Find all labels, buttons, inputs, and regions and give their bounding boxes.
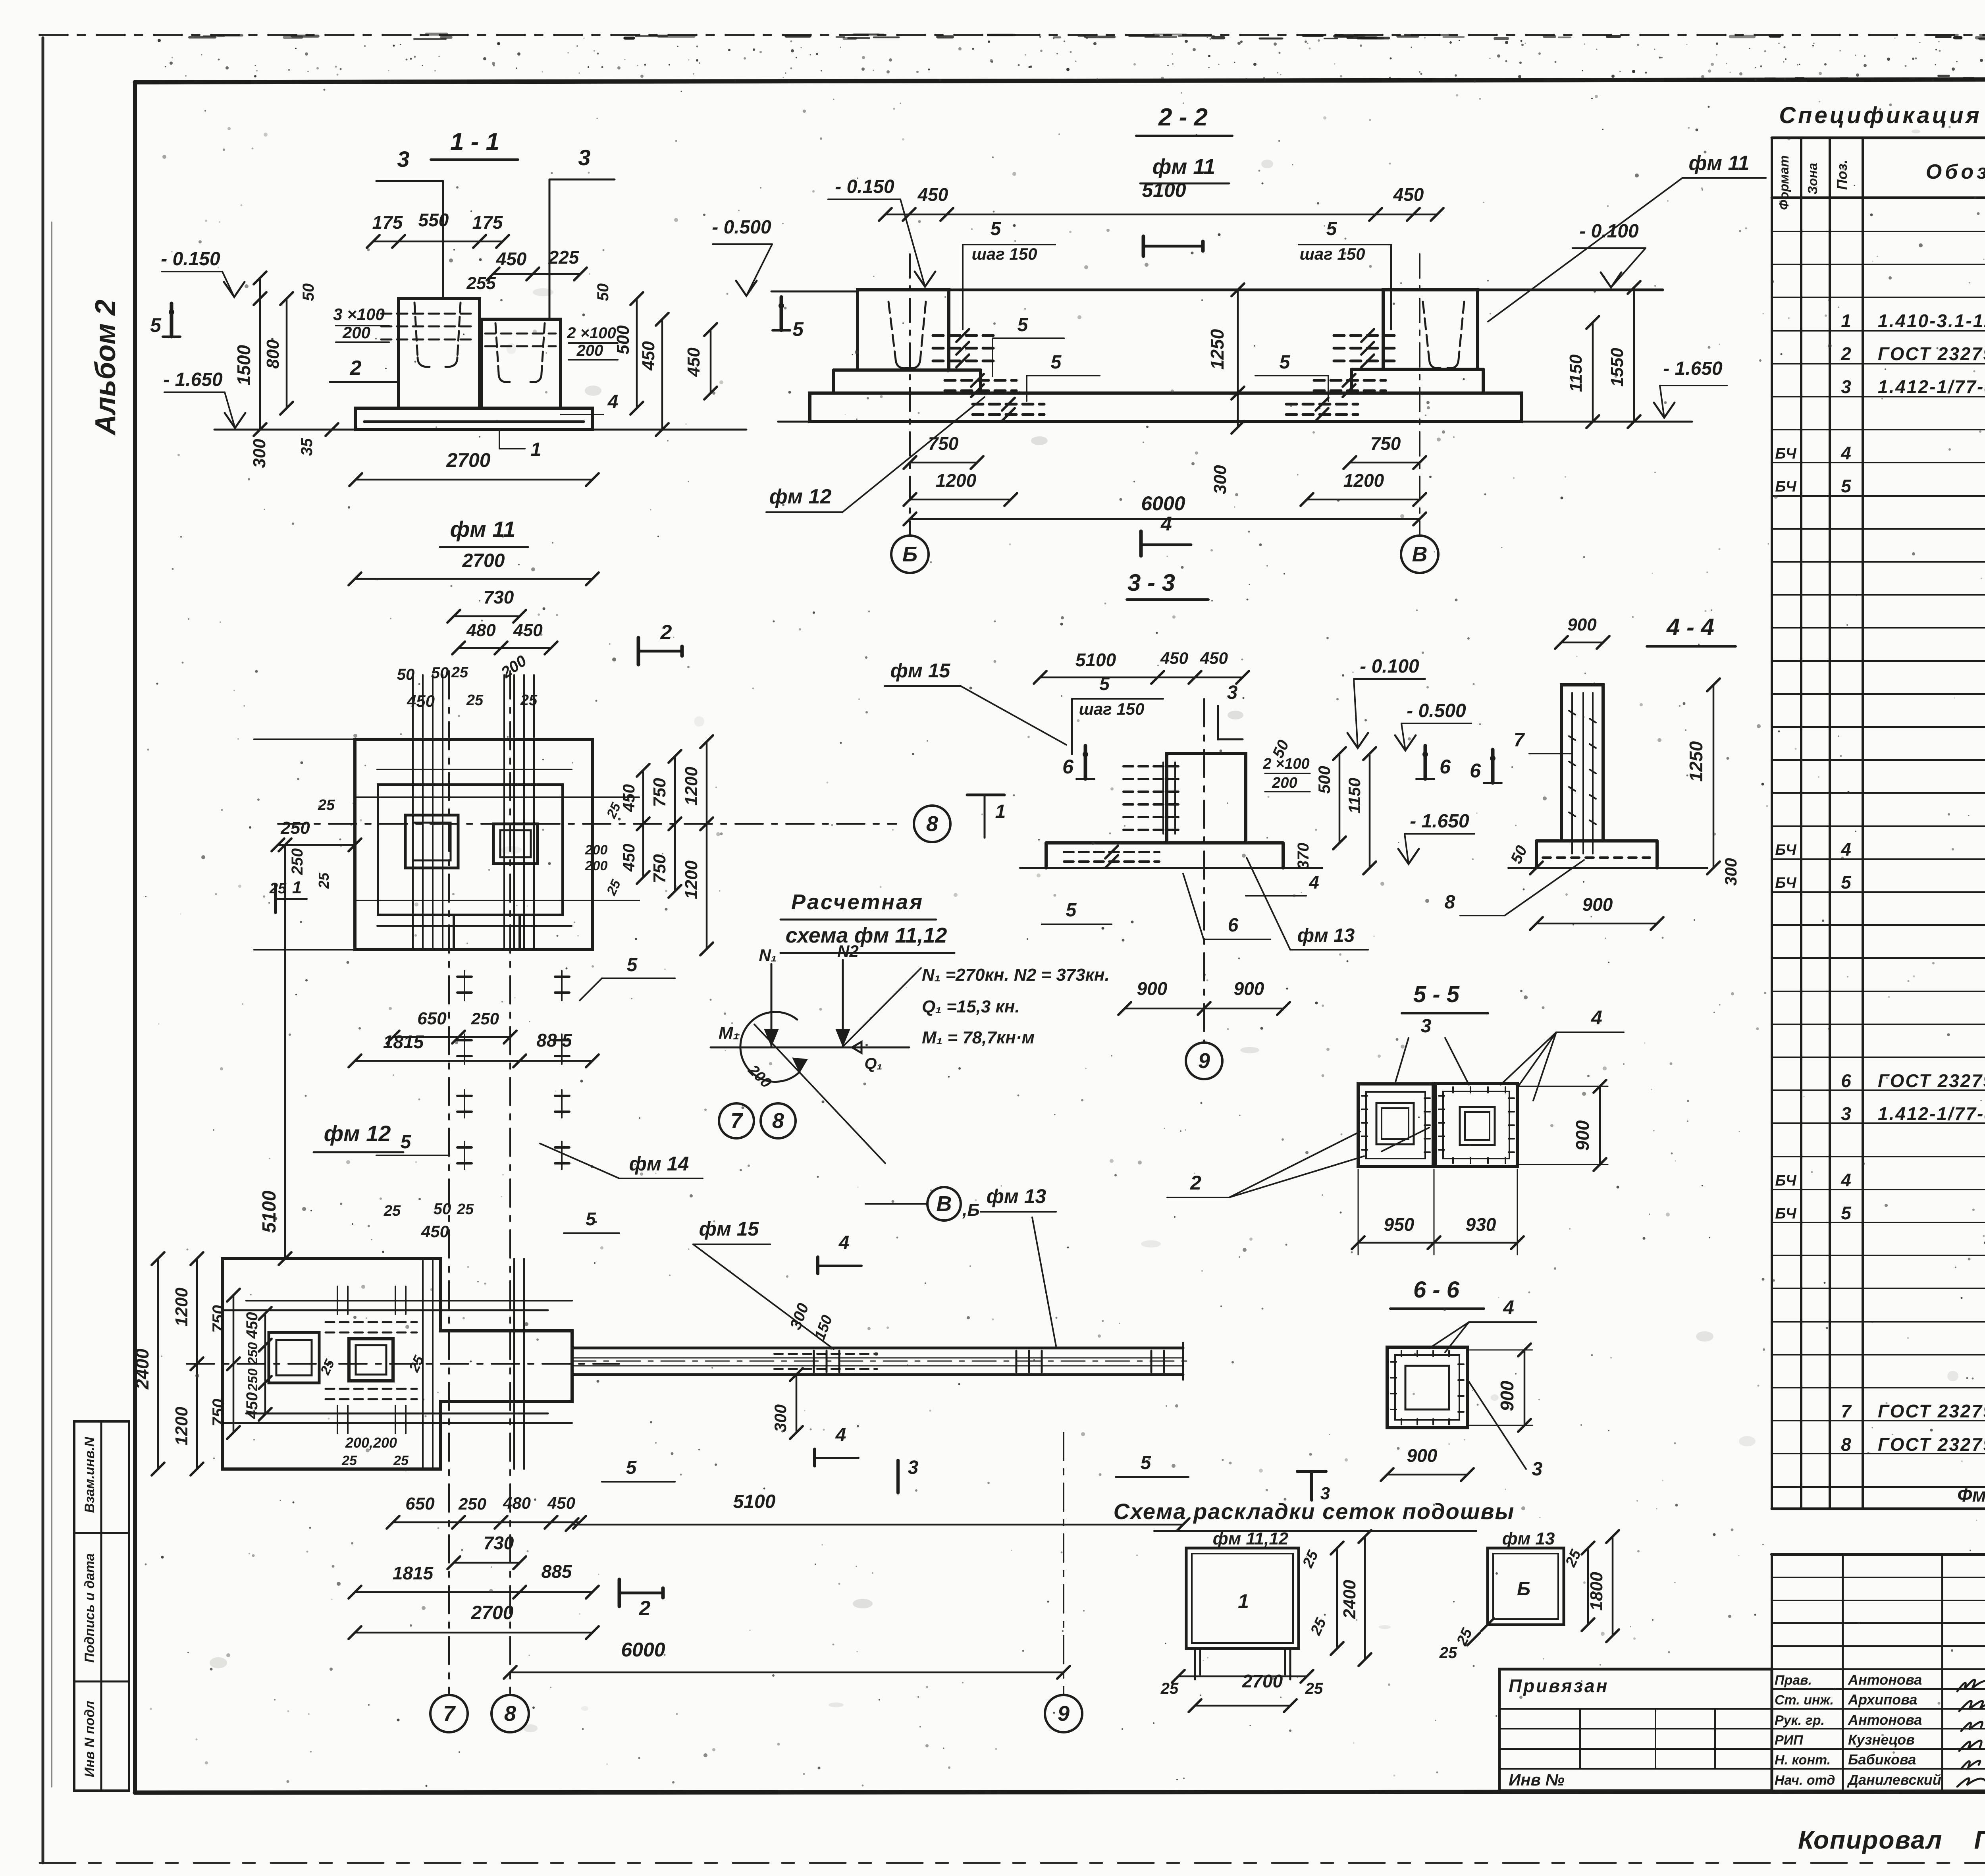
label ФМ 14 — [540, 1143, 703, 1178]
svg-text:5: 5 — [1066, 900, 1077, 921]
plan FM11 right dims — [585, 735, 713, 955]
section 1-1 left dims 1500 800 50 — [233, 272, 317, 436]
svg-text:9: 9 — [1058, 1702, 1070, 1726]
svg-text:Подпись и дата: Подпись и дата — [82, 1553, 97, 1663]
mesh plan FM13 — [1488, 1529, 1564, 1625]
section 3-3 mesh hooks left — [1064, 762, 1178, 868]
svg-text:1200: 1200 — [172, 1288, 191, 1327]
svg-text:200,200: 200,200 — [345, 1434, 397, 1451]
svg-text:5: 5 — [1141, 1452, 1152, 1473]
svg-text:800: 800 — [263, 339, 283, 369]
svg-text:1150: 1150 — [1345, 778, 1364, 814]
svg-text:885: 885 — [542, 1561, 572, 1582]
svg-text:730: 730 — [484, 1533, 514, 1553]
plan FM12 outline — [222, 1259, 572, 1469]
svg-text:Поз.: Поз. — [1834, 160, 1850, 190]
svg-text:5: 5 — [1841, 476, 1852, 496]
svg-text:900: 900 — [1567, 615, 1597, 634]
svg-text:25: 25 — [393, 1453, 409, 1468]
svg-text:6: 6 — [1062, 756, 1074, 778]
svg-text:1: 1 — [995, 801, 1006, 822]
svg-text:фм 13: фм 13 — [1297, 925, 1355, 946]
svg-text:6000: 6000 — [621, 1639, 665, 1661]
svg-text:750: 750 — [209, 1305, 227, 1333]
svg-text:Ст. инж.: Ст. инж. — [1775, 1693, 1834, 1708]
plan FM12 bottom dims 650 250 480 450 — [387, 1494, 586, 1529]
svg-text:5: 5 — [1099, 673, 1110, 694]
beam FM15 axis chain — [572, 1361, 1191, 1362]
svg-text:300: 300 — [250, 439, 269, 468]
section 4-4 callout 8 — [1445, 860, 1584, 916]
mesh plan FM11,12 dims — [1160, 1530, 1371, 1712]
svg-text:Схема раскладки сеток подошвы: Схема раскладки сеток подошвы — [1114, 1499, 1515, 1524]
plan FM11 cut mark 1 right — [967, 795, 1006, 838]
plan FM11 dims 480 450 — [452, 621, 557, 654]
svg-text:450: 450 — [1200, 649, 1228, 667]
section 2-2 axis circle В — [1401, 536, 1438, 573]
svg-text:Б: Б — [902, 542, 917, 566]
svg-text:Прав.: Прав. — [1775, 1673, 1812, 1688]
svg-text:1150: 1150 — [1566, 354, 1586, 392]
расчетная схема loads text — [922, 965, 1110, 1047]
label ФМ 15 upper — [885, 659, 1066, 745]
svg-text:1.410-3.1-12: 1.410-3.1-12 — [1878, 310, 1985, 331]
svg-text:1200: 1200 — [682, 860, 701, 899]
svg-text:370: 370 — [1295, 843, 1312, 870]
section 1-1 ground line — [214, 429, 746, 431]
svg-text:900: 900 — [1234, 978, 1264, 999]
svg-text:N2: N2 — [837, 942, 859, 960]
section 2-2 right dims 1150 1550 — [1566, 281, 1640, 428]
svg-text:200: 200 — [576, 342, 603, 359]
plan FM12 column core — [349, 1339, 393, 1381]
svg-text:250: 250 — [458, 1494, 486, 1513]
plan FM12 rebar dashes around column — [326, 1286, 417, 1433]
svg-text:3: 3 — [1227, 682, 1238, 703]
svg-text:5: 5 — [991, 218, 1002, 239]
section 6-6 title — [1390, 1277, 1484, 1309]
svg-text:750: 750 — [928, 433, 959, 454]
section 2-2 axis line Б — [909, 254, 911, 536]
section 3-3 top dims 5100 450 450 — [1034, 649, 1249, 684]
section 3-3 paint 6 — [1084, 746, 1087, 779]
beam cut 4 marks — [815, 1232, 861, 1466]
section 2-2 left pedestal — [834, 290, 981, 393]
svg-text:25: 25 — [1305, 1680, 1323, 1697]
label ФМ 15 to 3-3 — [0, 0, 0, 0]
section 3-3 structure — [1020, 754, 1322, 868]
section 5-5 dims 950 930 — [1352, 1169, 1524, 1255]
svg-text:6: 6 — [1841, 1070, 1851, 1091]
section 4-4 title — [1647, 614, 1736, 646]
section 1-1 right dims 50 500 450 — [594, 283, 669, 436]
svg-text:3: 3 — [397, 147, 409, 172]
svg-text:500: 500 — [1315, 766, 1334, 794]
section 1-1 callout 2 — [330, 357, 399, 382]
callout 5 right — [1116, 1452, 1189, 1477]
svg-text:1: 1 — [531, 439, 542, 460]
svg-text:900: 900 — [1407, 1445, 1438, 1466]
section 2-2 axis line В — [1419, 254, 1420, 536]
axis circle 7 bottom — [430, 1695, 468, 1732]
svg-text:450: 450 — [513, 621, 543, 640]
svg-text:Данилевский: Данилевский — [1847, 1772, 1941, 1788]
svg-text:3: 3 — [578, 145, 590, 170]
svg-text:3 - 3: 3 - 3 — [1127, 569, 1175, 596]
section 2-2 dim 6000 — [904, 492, 1426, 525]
svg-text:450: 450 — [619, 844, 638, 872]
section 2-2 axis circle Б — [891, 536, 929, 573]
svg-text:- 1.650: - 1.650 — [163, 369, 223, 390]
section 1-1 top dimensions 175 550 175 — [367, 210, 509, 248]
section 5-5 dim 900 — [1517, 1080, 1608, 1171]
svg-text:650: 650 — [405, 1494, 435, 1514]
section 3-3 dim 900 900 — [1118, 978, 1290, 1015]
section 5-5 callout 2 — [1167, 1132, 1364, 1197]
plan FM12 left hole — [269, 1332, 319, 1383]
section 2-2 callout 5 mid-left — [992, 314, 1064, 376]
svg-text:5: 5 — [1326, 218, 1337, 239]
svg-text:4: 4 — [1591, 1006, 1602, 1029]
section 5-5 leader 3 — [1395, 1038, 1469, 1085]
plan FM11 bottom dims 650 250 — [387, 1009, 516, 1043]
section 6-6 cage — [1387, 1347, 1467, 1428]
svg-text:ГОСТ 23279-85: ГОСТ 23279-85 — [1878, 1401, 1985, 1421]
svg-text:2 ×100: 2 ×100 — [567, 324, 616, 342]
section 2-2 callout 5 mid-right — [1255, 352, 1328, 401]
svg-text:4: 4 — [1503, 1296, 1514, 1319]
beam dim 5100 — [566, 1491, 1189, 1531]
svg-text:300: 300 — [771, 1404, 790, 1432]
section 3-3 bottom labels 5 6 — [1042, 873, 1270, 939]
svg-text:ГОСТ 23279-85: ГОСТ 23279-85 — [1878, 343, 1985, 364]
section 2-2 cut mark 1 — [1143, 236, 1203, 256]
svg-text:450: 450 — [407, 692, 435, 710]
svg-text:480: 480 — [466, 621, 496, 640]
section 2-2 callout 5/шаг150 right — [1299, 218, 1391, 330]
svg-text:750: 750 — [209, 1399, 227, 1427]
svg-text:900: 900 — [1137, 978, 1168, 999]
beam dims 300 150 — [771, 1301, 836, 1439]
plan FM11 axis circle 8 — [914, 806, 950, 842]
plan FM11 bottom dims 1815 885 — [349, 1030, 599, 1067]
plan FM12 axis chain horizontal — [187, 1363, 619, 1365]
svg-text:450: 450 — [421, 1222, 449, 1241]
svg-text:8: 8 — [1445, 892, 1455, 913]
svg-text:Расчетная: Расчетная — [791, 890, 924, 914]
plan FM11 dim 730 — [447, 587, 526, 623]
svg-text:450: 450 — [684, 347, 703, 377]
svg-text:255: 255 — [466, 274, 496, 293]
svg-text:шаг 150: шаг 150 — [1079, 700, 1145, 718]
svg-text:1800: 1800 — [1587, 1572, 1606, 1611]
svg-text:Формат: Формат — [1777, 155, 1791, 210]
spec table rows — [1775, 211, 1985, 1506]
svg-text:1250: 1250 — [1686, 741, 1706, 782]
svg-text:Н. конт.: Н. конт. — [1775, 1753, 1831, 1768]
section 2-2 top dims 450 5100 450 — [879, 179, 1443, 221]
svg-text:450: 450 — [639, 341, 658, 371]
svg-text:8: 8 — [1841, 1434, 1851, 1455]
section 1-1 dimensions 450 225 — [487, 247, 587, 280]
plan FM11 dim 5100 vertical — [259, 839, 291, 1265]
svg-text:5: 5 — [626, 1457, 637, 1478]
svg-text:50: 50 — [594, 283, 612, 301]
section 3-3 axis 9 — [1186, 699, 1222, 1079]
plan FM11 title — [440, 517, 528, 547]
svg-text:Рук. гр.: Рук. гр. — [1775, 1713, 1825, 1728]
svg-text:730: 730 — [484, 587, 514, 607]
section 6-6 callout 3 — [1469, 1382, 1556, 1483]
svg-text:1815: 1815 — [383, 1032, 424, 1052]
svg-text:950: 950 — [1384, 1214, 1415, 1235]
svg-text:1 - 1: 1 - 1 — [450, 128, 499, 156]
svg-text:35: 35 — [298, 438, 316, 456]
section 2-2 label ФМ 11 — [1488, 152, 1766, 322]
svg-text:2700: 2700 — [471, 1602, 514, 1623]
svg-text:2: 2 — [350, 357, 362, 380]
svg-text:4: 4 — [838, 1232, 850, 1253]
svg-text:Б: Б — [1517, 1579, 1530, 1600]
section 5-5 leader mid — [1382, 1128, 1429, 1151]
section 3-3 callout 5/шаг150 — [1072, 673, 1163, 754]
beam cut 3 mark — [898, 1457, 934, 1493]
svg-text:25: 25 — [384, 1203, 401, 1219]
svg-text:Q₁: Q₁ — [864, 1055, 882, 1072]
section 2-2 left dim 450 — [684, 323, 717, 399]
svg-text:650: 650 — [417, 1009, 447, 1028]
svg-text:2700: 2700 — [446, 449, 490, 471]
svg-text:25: 25 — [316, 872, 332, 889]
svg-text:88 5: 88 5 — [536, 1030, 572, 1051]
svg-text:,Б: ,Б — [962, 1200, 979, 1220]
svg-text:2 - 2: 2 - 2 — [1158, 104, 1208, 131]
binding box "Привязан" — [1499, 1669, 1772, 1791]
svg-text:5: 5 — [792, 318, 804, 340]
svg-text:5: 5 — [1051, 352, 1062, 373]
svg-text:2400: 2400 — [1340, 1580, 1359, 1619]
svg-text:- 0.500: - 0.500 — [712, 217, 771, 238]
beam FM15 outline — [572, 1343, 1183, 1380]
svg-text:- 0.150: - 0.150 — [161, 249, 220, 270]
section 2-2 label ФМ 12 — [766, 397, 985, 512]
section 2-2 dims 750 1200 right — [1301, 433, 1426, 506]
svg-text:фм 12: фм 12 — [769, 485, 832, 508]
svg-text:Привязан: Привязан — [1509, 1675, 1609, 1696]
svg-text:4: 4 — [1840, 443, 1851, 463]
axis circle 9 bottom — [1045, 1433, 1082, 1732]
svg-text:фм 15: фм 15 — [890, 659, 951, 682]
svg-text:шаг 150: шаг 150 — [1300, 245, 1365, 263]
svg-text:5100: 5100 — [259, 1190, 280, 1233]
svg-text:5: 5 — [1280, 352, 1291, 373]
svg-text:Альбом 2: Альбом 2 — [90, 299, 121, 436]
beam FM15 rebar hatches — [774, 1351, 1164, 1372]
svg-text:Бабикова: Бабикова — [1848, 1751, 1916, 1768]
svg-text:750: 750 — [650, 778, 669, 807]
section 3-3 right dims — [1246, 737, 1376, 896]
section 5-5 right cage — [1435, 1084, 1517, 1166]
section 6-6 dim 900 bottom — [1381, 1445, 1474, 1481]
section 5-5 callout 4 — [1501, 1006, 1624, 1101]
svg-text:БЧ: БЧ — [1775, 842, 1796, 858]
svg-text:4: 4 — [1840, 839, 1851, 860]
svg-text:6: 6 — [1470, 760, 1481, 782]
plan FM11 right column hole — [493, 824, 538, 864]
svg-text:3: 3 — [908, 1457, 919, 1478]
section 3-3 cut 3 mark — [1218, 682, 1243, 739]
svg-text:M₁ = 78,7кн·м: M₁ = 78,7кн·м — [922, 1028, 1035, 1047]
svg-text:5: 5 — [1841, 1203, 1852, 1223]
svg-text:2 ×100: 2 ×100 — [1262, 756, 1309, 772]
section 6-6 callout 4 — [1429, 1296, 1536, 1352]
svg-text:5: 5 — [1841, 872, 1852, 893]
svg-text:Копировал Подлевская: Копировал Подлевская — [1798, 1826, 1985, 1854]
svg-text:550: 550 — [418, 210, 449, 230]
section 6-6 dim 900 right — [1467, 1344, 1532, 1432]
svg-text:5 - 5: 5 - 5 — [1413, 981, 1460, 1007]
plan FM11 outline — [355, 739, 592, 950]
svg-text:1200: 1200 — [1343, 470, 1384, 491]
section 1-1 callout 1 — [499, 431, 541, 460]
svg-text:N₁ =270кн. N2 = 373кн.: N₁ =270кн. N2 = 373кн. — [922, 965, 1110, 985]
svg-text:8: 8 — [926, 812, 938, 836]
расчетная схема title — [781, 890, 954, 953]
callout 5 near beam — [580, 954, 675, 1001]
svg-text:1250: 1250 — [1207, 329, 1228, 370]
схема раскладки title — [1114, 1499, 1515, 1531]
svg-text:450: 450 — [243, 1312, 261, 1339]
plan FM11 small dims 50 50 25 200 — [397, 652, 538, 710]
spec table grid — [1772, 138, 1985, 1509]
svg-text:25: 25 — [466, 692, 484, 709]
svg-text:6: 6 — [1228, 915, 1239, 936]
callout 5 left beam — [376, 1132, 449, 1155]
plan FM12 dims 1815 885 — [349, 1561, 599, 1598]
section 1-1 callout 4 — [561, 391, 618, 415]
section 2-2 right pedestal — [1351, 290, 1483, 393]
title block — [1772, 1554, 1985, 1791]
svg-text:шаг 150: шаг 150 — [972, 245, 1037, 263]
plan FM11 cut mark 2 top — [637, 638, 640, 665]
svg-text:фм 14: фм 14 — [629, 1153, 689, 1175]
svg-text:Антонова: Антонова — [1848, 1712, 1922, 1728]
svg-text:450: 450 — [547, 1494, 575, 1512]
section 1-1 dim 3x100 200 — [333, 305, 389, 342]
svg-text:Спецификация элементов монол: Спецификация элементов монолитной констр… — [1779, 102, 1985, 128]
svg-text:7: 7 — [443, 1702, 456, 1726]
svg-text:9: 9 — [1198, 1049, 1210, 1073]
section 4-4 dim 900 bottom — [1530, 894, 1663, 930]
svg-text:250: 250 — [471, 1009, 499, 1028]
section 2-2 callout 5/шаг150 left — [963, 218, 1055, 330]
plan FM12 inner mesh lines — [222, 1301, 572, 1423]
svg-text:Фм 14: Фм 14 — [1957, 1485, 1985, 1506]
section 4-4 callout 7 — [1514, 730, 1571, 754]
svg-text:4: 4 — [1160, 513, 1172, 535]
svg-text:1550: 1550 — [1607, 348, 1627, 387]
svg-text:450: 450 — [619, 784, 638, 812]
svg-text:25: 25 — [457, 1201, 474, 1218]
section 2-2 callout 5 mid-left2 — [1027, 352, 1100, 401]
svg-text:450: 450 — [243, 1392, 261, 1419]
section 1-1 right pedestal — [481, 319, 561, 408]
section 4-4 dim 900 top — [1555, 615, 1609, 649]
svg-text:1.412-1/77-8.3-020: 1.412-1/77-8.3-020 — [1878, 376, 1985, 397]
svg-text:900: 900 — [1582, 894, 1613, 915]
svg-text:фм 11,12: фм 11,12 — [1213, 1529, 1289, 1548]
svg-text:Зона: Зона — [1805, 163, 1820, 195]
svg-text:3: 3 — [1841, 376, 1851, 397]
svg-text:175: 175 — [472, 212, 503, 233]
svg-text:200: 200 — [342, 323, 370, 342]
svg-text:25: 25 — [1439, 1644, 1457, 1662]
section 3-3 paint 6 right — [1424, 746, 1427, 779]
svg-text:2700: 2700 — [1242, 1671, 1283, 1691]
section 1-1 title — [431, 128, 518, 160]
svg-text:1.412-1/77-83.-020: 1.412-1/77-83.-020 — [1878, 1103, 1985, 1124]
section 4-4 dims right 1250 300 — [1686, 679, 1740, 886]
расчетная схема diagram — [711, 942, 921, 1163]
svg-text:7: 7 — [730, 1109, 744, 1133]
svg-text:фм 11: фм 11 — [450, 517, 516, 542]
axis chain 8 — [509, 671, 511, 1695]
callout 5 under beam — [602, 1457, 675, 1482]
svg-text:8: 8 — [772, 1109, 784, 1133]
svg-text:2: 2 — [639, 1597, 651, 1620]
svg-text:Антонова: Антонова — [1848, 1672, 1922, 1688]
svg-text:БЧ: БЧ — [1775, 1172, 1796, 1189]
svg-text:200: 200 — [585, 843, 608, 858]
axis circle 8 bottom — [491, 1695, 529, 1732]
svg-text:50: 50 — [431, 664, 449, 682]
section 2-2 ground line — [778, 421, 1692, 423]
svg-text:50: 50 — [397, 666, 415, 683]
svg-text:1500: 1500 — [233, 345, 254, 386]
plan FM12 top small dims — [384, 1200, 619, 1241]
svg-text:250 250: 250 250 — [245, 1342, 260, 1391]
svg-text:- 0.500: - 0.500 — [1407, 700, 1466, 721]
svg-text:25: 25 — [1160, 1680, 1179, 1697]
svg-text:225: 225 — [548, 247, 580, 268]
svg-text:300: 300 — [1721, 858, 1740, 886]
svg-text:25: 25 — [341, 1453, 357, 1468]
svg-text:2: 2 — [660, 621, 672, 644]
svg-text:5: 5 — [1018, 314, 1029, 335]
svg-text:- 1.650: - 1.650 — [1410, 811, 1469, 832]
svg-text:7: 7 — [1514, 730, 1525, 751]
svg-text:7: 7 — [1841, 1401, 1852, 1421]
svg-text:25: 25 — [451, 664, 468, 681]
scan toner dashes top edge — [189, 34, 1985, 80]
plan FM11 inner mesh lines — [254, 739, 639, 950]
svg-text:В: В — [937, 1192, 952, 1216]
svg-text:5: 5 — [401, 1132, 412, 1153]
plan FM11 cut mark 1 left — [276, 878, 306, 912]
section 1-1 left pedestal — [381, 299, 480, 408]
svg-text:4: 4 — [835, 1425, 846, 1446]
svg-text:3 ×100: 3 ×100 — [333, 305, 385, 324]
svg-text:250: 250 — [280, 818, 310, 838]
svg-text:6: 6 — [1440, 756, 1451, 778]
section 2-2 title — [1136, 104, 1232, 183]
svg-text:Обозначение: Обозначение — [1926, 160, 1985, 183]
svg-text:Инв N подл: Инв N подл — [82, 1701, 97, 1778]
svg-text:25: 25 — [520, 692, 538, 709]
svg-text:N₁: N₁ — [759, 946, 777, 964]
svg-text:25: 25 — [269, 880, 287, 897]
plan FM12 left dims — [132, 1252, 272, 1475]
